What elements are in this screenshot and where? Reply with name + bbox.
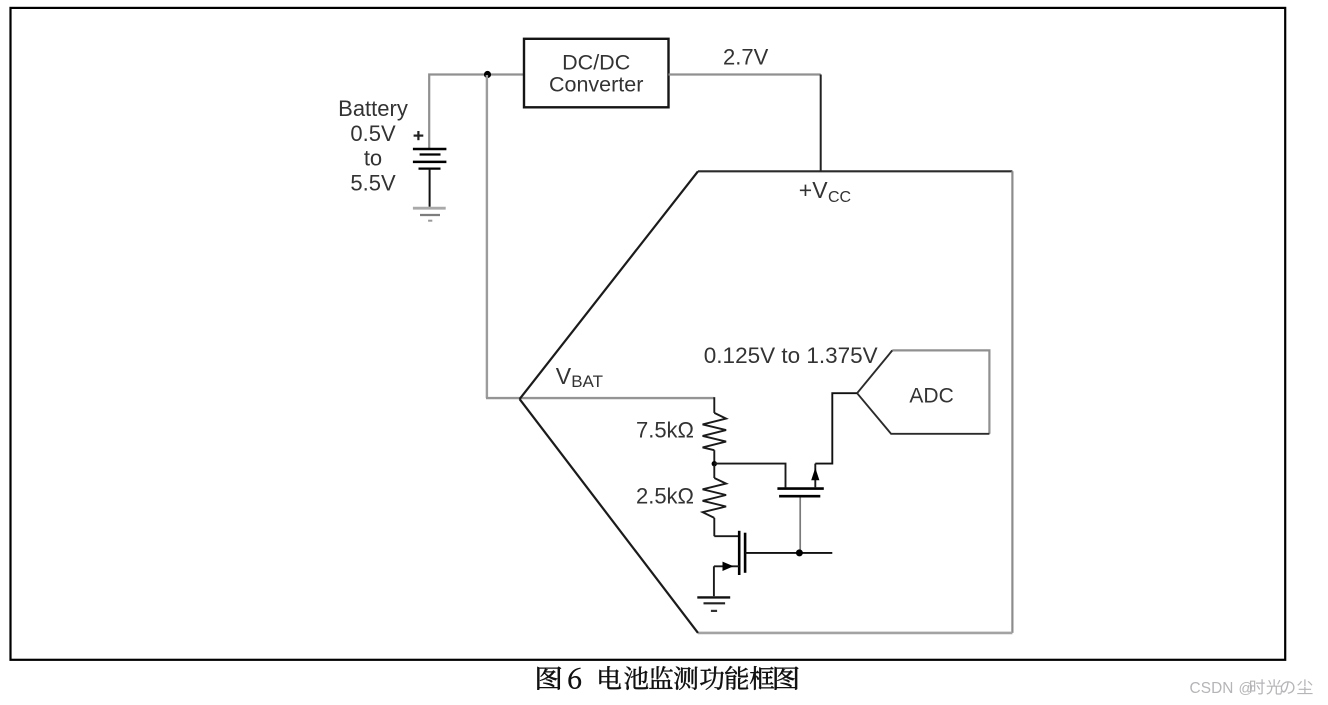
svg-text:5.5V: 5.5V <box>350 171 396 196</box>
battery value label <box>338 96 408 196</box>
svg-text:to: to <box>364 146 382 171</box>
svg-text:2.7V: 2.7V <box>723 44 769 69</box>
wire 2.7V from DC/DC output to +VCC pin <box>669 73 821 75</box>
wire VBAT pin into IC to divider <box>486 397 714 399</box>
svg-text:CSDN: CSDN <box>1190 680 1234 697</box>
ADC block <box>857 350 989 433</box>
svg-text:DC/DC: DC/DC <box>562 50 630 74</box>
svg-text:BAT: BAT <box>571 372 603 391</box>
svg-text:7.5kΩ: 7.5kΩ <box>636 417 694 442</box>
svg-text:0.5V: 0.5V <box>350 121 396 146</box>
DC/DC converter U1 <box>524 39 669 108</box>
wire Q1 gate down to gate node <box>799 498 801 553</box>
IC U2 body outline <box>520 171 1013 633</box>
battery BT1 plates <box>413 149 447 169</box>
wire Q2 gate to gate node <box>745 552 832 554</box>
wire Q1 source to ADC input <box>815 393 857 463</box>
wire divider midpoint to Q1 drain <box>714 464 785 488</box>
svg-text:CC: CC <box>828 189 851 206</box>
caption: figure 6 battery monitor block diagram (CJK glyph paths) <box>537 666 798 690</box>
wire junction down to VBAT pin <box>486 75 488 398</box>
svg-text:2.5kΩ: 2.5kΩ <box>636 483 694 508</box>
wire battery negative to ground <box>429 169 431 207</box>
wire battery positive to DC/DC input <box>429 75 524 150</box>
wire Q2 source to ground <box>713 566 715 596</box>
svg-text:Converter: Converter <box>549 73 643 97</box>
resistor R2 2.5kOhm <box>703 465 727 536</box>
wire R2 bottom to Q2 drain <box>714 535 738 537</box>
transistor Q2 enable FET <box>714 531 745 575</box>
svg-text:Battery: Battery <box>338 96 408 121</box>
node divider midpoint <box>712 461 717 466</box>
node: battery / DC-DC / VBAT junction <box>484 71 491 78</box>
watermark CJK glyph paths <box>1250 679 1313 694</box>
ground (battery) <box>413 208 446 221</box>
svg-text:ADC: ADC <box>909 384 953 407</box>
transistor Q1 pass FET <box>777 464 823 497</box>
svg-text:+V: +V <box>799 177 828 203</box>
battery polarity plus sign <box>414 131 424 140</box>
svg-text:0.125V to 1.375V: 0.125V to 1.375V <box>704 343 878 368</box>
node gate junction <box>796 549 803 556</box>
svg-text:V: V <box>556 363 572 389</box>
ground (IC internal) <box>697 597 730 611</box>
resistor R1 7.5kOhm <box>703 397 727 462</box>
